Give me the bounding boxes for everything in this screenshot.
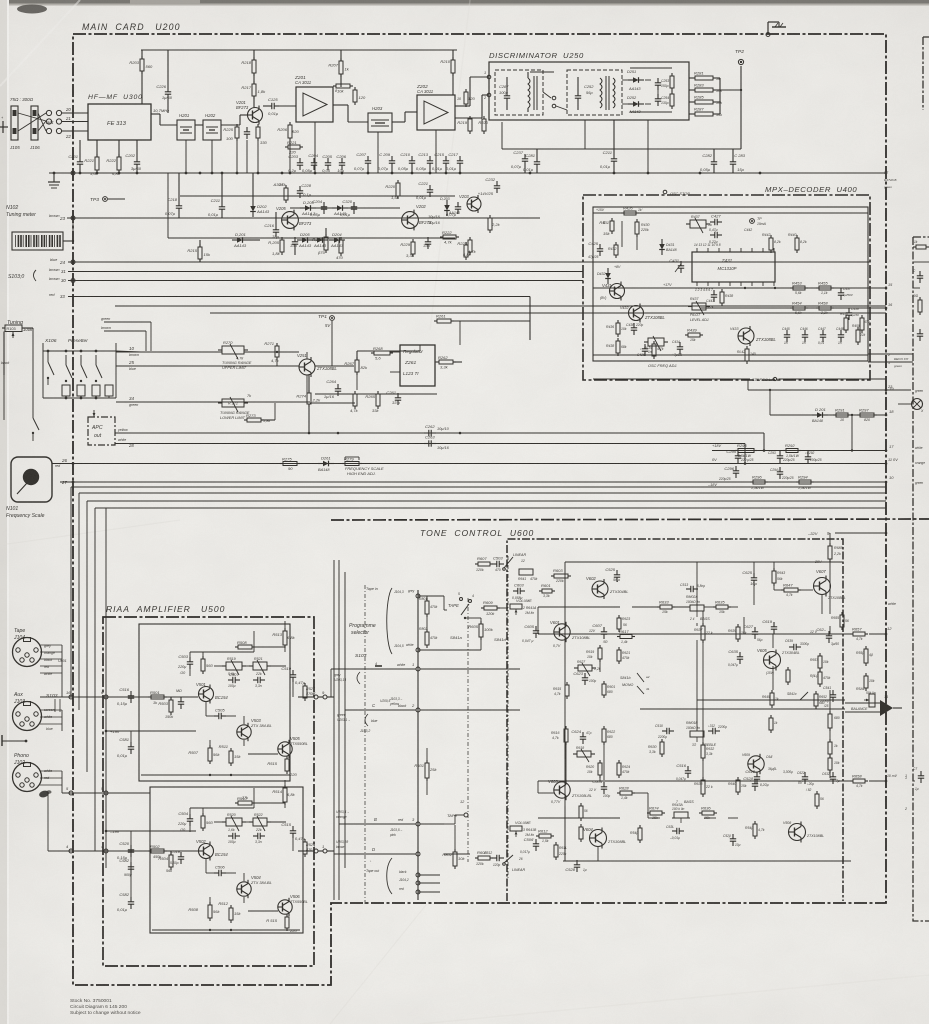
wire Z202 to discriminator pin1 [455,105,470,107]
resistor R297 [857,408,877,418]
selector bus B [338,560,340,900]
tone wires lower [537,781,539,793]
capacitor C296 [724,466,739,478]
capacitor C232 [478,177,500,196]
resistor R218 [241,57,256,76]
capacitor C609l [730,834,736,846]
resistor R614 [554,842,558,860]
resistor R436 [616,320,620,337]
discriminator coil core [533,76,535,110]
capacitor C263 [424,435,436,447]
trim R522 [249,816,271,831]
RIAA ch2 bottom rail [152,929,300,931]
diode D205 [297,232,313,248]
capacitor C516 [117,687,134,706]
capacitor C619 [762,619,777,634]
capacitor C223b [446,202,461,217]
capacitor C216 [264,223,279,239]
preset switch 1 [47,351,49,362]
node 5 right [104,791,108,795]
discriminator coil L253 [600,78,602,108]
trim R618 [573,749,595,762]
resistor R430 [635,219,639,237]
resistor R442v [745,346,749,364]
wire [253,50,255,60]
resistor R635 [713,600,731,610]
resistor R274 [296,390,321,407]
capacitor C254 [655,94,661,106]
capacitor C-emitter [244,127,250,139]
trim R437 [686,218,710,233]
resistor R432 [614,242,618,258]
wire y851 phono [48,850,198,852]
capacitor C519 [281,666,305,685]
wire [340,50,342,61]
antenna connector J106 [31,106,38,140]
resistor R644 [753,821,757,839]
MPX rail y308 [700,307,886,309]
capacitor C443 [711,290,717,302]
resistor R210 [440,57,455,76]
tone wires upper2 [745,633,853,635]
resistor R602sel [442,849,465,869]
discriminator transformer can 1 [495,70,543,115]
trim R437 osc [644,336,668,351]
diode D204 [329,232,345,248]
wire 34 rail ext [310,402,355,404]
diode D201m [232,232,248,248]
capacitor C203 [288,154,303,173]
resistor R601sel [414,760,437,781]
discriminator input cap [504,91,510,103]
wire [244,402,247,404]
bus y493 [79,492,886,494]
resistor R652l [815,791,819,809]
resistor R655 [840,612,844,630]
preset switch 4 [95,355,97,365]
IF module FE313 U300 [88,104,151,140]
tape connector wires [40,644,67,697]
transistor V607 [814,569,831,597]
ink blob [38,790,49,799]
capacitor C515 [281,822,305,841]
capacitor C582 [117,892,134,912]
capacitor C320m [340,199,357,217]
resistor R640 [736,777,740,795]
wire Z202 to discriminator pin2 [455,117,482,119]
resistor R802 [425,629,429,648]
discriminator pin 1 [487,75,491,79]
capacitor C204 [302,153,319,173]
resistor R220 [385,180,400,200]
diode D205r [300,200,316,216]
capacitor C207 [354,152,371,171]
resistor R224 [488,215,501,233]
resistor R285 [692,95,716,105]
node 4 right [104,849,108,853]
capacitor C516t [676,763,691,778]
capacitor C445 [784,330,790,342]
tone inner top rail [565,561,843,563]
resistor R225v [312,234,328,255]
capacitor C237 [511,150,528,169]
resistor R636 [699,806,717,816]
diode D261 [318,456,334,467]
resistor R220b [478,116,488,134]
wire H203 to Z202 [392,121,405,123]
capacitor C501 [178,697,184,709]
resistor R611l [579,824,583,842]
resistor R251d [670,73,674,91]
resistor R504 [158,852,173,870]
trim R272 [218,397,248,412]
resistor R515 [267,756,297,777]
capacitor C215 [432,152,449,171]
RIAA ch1 bottom rail [141,774,290,776]
bus y306 [115,305,886,307]
resistor R660 [828,755,832,773]
resistor R217v [336,237,344,260]
transistor V604 [583,827,607,849]
diode D251 [628,77,644,83]
tone input wires [443,596,445,610]
diode D201 [812,407,828,418]
capacitor C431 [669,258,684,273]
right-edge card border [913,37,929,921]
wire y697 tape [40,696,62,698]
resistor R221s [285,140,303,155]
wire antenna to FE313 pin21 [62,121,88,123]
resistor R279 [342,456,362,465]
capacitor C304m [310,199,327,217]
capacitor C628 [743,776,758,791]
resistor R505 [201,656,214,674]
capacitor C606l [524,837,540,851]
capacitor C221 [416,181,433,200]
bus y313 [210,312,886,314]
switch LINEAR 1 [504,557,513,568]
output junction [880,700,893,716]
resistor R262 [436,355,456,370]
wire [243,897,245,903]
resistor R287 [692,107,716,117]
capacitor C446 [802,330,808,342]
volume gang coupling dash line [507,556,509,880]
resistor R637 [701,623,705,643]
tone mid rail upper [538,633,853,635]
capacitor C283 [730,153,746,172]
tone wire out pair [697,699,845,701]
resistor R292 [783,443,801,453]
capacitor C635 [728,649,743,664]
wire stereo to lamp [748,389,911,391]
capacitor C434 [677,342,683,354]
tone mid rail lower [538,780,853,782]
capacitor C292b [805,452,811,464]
resistor R502 [148,844,167,853]
resistor R501 [148,690,167,699]
resistor R252d [670,91,674,109]
node 6 left [69,695,73,699]
tone control U600 border top [331,519,929,520]
phono connector wires [40,769,62,793]
discriminator coil L254 [613,78,615,108]
MPX top rail [593,212,868,214]
wire [630,67,672,69]
resistor R293 [735,443,757,453]
wire [22,327,33,329]
RIAA ch1 out nodes [314,695,318,699]
wire [243,740,245,746]
capacitor C217 [446,152,463,171]
discriminator transformer can 2 [567,70,622,115]
resistor R650 [864,646,868,666]
pot upper linear [519,569,533,575]
resistor R438 [720,289,724,306]
transistor V609 [748,754,764,774]
resistor R527 [303,683,307,701]
resistor R634 [647,806,665,816]
wire [214,821,226,823]
resistor R265 [365,391,380,413]
selector arrow C [365,714,368,726]
capacitor C226 [156,84,172,100]
wire [689,77,692,79]
selector node A [327,696,331,698]
resistor R438L [616,338,620,356]
capacitor C447 [820,330,826,342]
capacitor C201 [68,154,83,169]
resistor R512 [218,901,241,923]
selector bus C [344,572,346,868]
tone lower input [444,823,455,825]
bus x106 down [105,508,107,868]
transistor V504 [237,875,262,898]
bus y487 [71,486,886,488]
resistor R273 [244,413,264,422]
capacitor C627 [743,624,758,639]
wire y793 [62,792,150,794]
capacitor C525 [605,567,620,582]
resistor R513 [272,628,295,648]
MPX decoder U400 border [583,195,870,380]
tone inner bottom rail [563,860,851,862]
resistor R620 [598,760,602,778]
capacitor C218a [165,197,182,216]
trim R519 [222,660,246,675]
capacitor C506 [214,865,226,877]
wire [357,350,420,352]
resistor R554 [769,715,773,733]
APC out box [88,417,115,445]
wire [65,396,67,398]
resistor R271 [264,341,279,363]
ceramic filter H201 [177,120,195,140]
capacitor C428 [710,232,722,238]
transistor V605 [757,648,781,671]
resistor R439 [685,328,703,338]
capacitor C528 [565,860,580,872]
stereo lamp [912,399,923,410]
resistor R268 [371,346,393,361]
resistor R651 [818,653,822,671]
resistor R643 [772,568,776,586]
diode D206 [312,237,328,248]
opamp Z202 CA3011 [417,95,455,130]
capacitor C281 [523,153,540,172]
chassis bar [1,735,3,746]
wire y352 tuning rail [141,351,222,353]
resistor R552 [864,673,868,691]
discriminator coil L251 [528,78,530,108]
capacitor C437 [838,288,844,300]
tone wire x565 low [564,806,566,861]
resistor R204 [256,124,268,145]
capacitor C294 [777,467,783,479]
wire antenna to FE313 pin22 [62,130,88,132]
aux connector wires [40,708,62,731]
wire [214,665,226,667]
chassis ground [53,173,55,182]
power entry symbol top [768,22,786,34]
resistor R281 [692,71,716,81]
resistor R440 [795,235,799,253]
resistor R267 [344,357,368,375]
RIAA ch2 out nodes [314,849,318,853]
resistor R621 [617,647,621,664]
capacitor C508 [228,833,240,839]
presetter bottom rail [43,397,116,399]
resistor R524 [303,839,307,857]
capacitor C504 [178,811,193,826]
resistor R431 [599,218,614,236]
capacitor C202 [125,153,141,171]
capacitor C205 [322,154,333,173]
capacitor C505 [214,708,226,720]
wire [189,652,191,657]
capacitor C206 [336,154,346,173]
resistor R-680 [602,681,606,698]
transistor V204 [402,204,432,230]
selector wafer coupling dash [364,585,366,905]
discriminator coil core 2 [605,76,607,110]
capacitor C605 [524,624,539,638]
transistor V201 [236,100,263,125]
capacitor C509 [253,677,265,683]
capacitor C520 [117,841,134,860]
transistor V502 [196,839,228,861]
wire y149 discriminator out [502,148,741,150]
capacitor C125 [267,97,279,116]
wire [253,96,255,107]
resistor R639 [736,624,740,642]
transistor V432 [629,304,666,323]
antenna connector J105 [11,106,18,140]
transistor V501 [196,682,228,704]
capacitor C440 [846,308,852,320]
resistor R619 [598,645,602,662]
capacitor C262 [424,424,436,436]
RIAA amplifier U500 border [103,617,314,966]
wire D201 row [770,414,886,416]
resistor R209 [333,84,353,94]
capacitor C604l [592,779,607,794]
rail 0V [885,462,888,465]
resistor R453 [790,281,808,291]
resistor R213 [464,89,476,107]
test point TP4 [750,219,755,224]
main horizontal bus y173 [49,172,886,174]
wire [603,221,605,224]
antenna coupling circles [46,110,61,133]
wire 25 blue rail [116,365,299,367]
capacitor C603 [513,583,525,595]
capacitor C632 [830,772,836,784]
capacitor C582b [119,858,134,874]
resistor R508 [188,902,220,921]
preset switch extra [32,410,34,418]
capacitor C209 [378,152,395,171]
selector bus A [333,560,335,900]
resistor R203 [129,56,153,74]
discriminator pin 2 [487,93,491,97]
border node circles [71,171,75,175]
right box parts [912,240,929,341]
frequency scale box N101 [11,457,52,502]
capacitor C210 [398,152,415,171]
diode D431 [659,239,665,255]
resistor R205 [268,237,284,256]
presetter box [42,343,44,398]
trim R270 [218,344,248,359]
voltage regulator Z261 [400,345,435,386]
wire [390,351,400,353]
resistor R458 [860,315,864,333]
DIN connector Aux J103 [13,692,42,731]
resistor R454 [790,301,808,311]
selector node B [339,823,416,825]
wire antenna to FE313 pin20 [62,112,88,114]
resistor R455 [816,281,834,291]
resistor R294 [796,475,814,485]
capacitor C511t [708,728,720,734]
resistor R456 [844,315,848,333]
tone wires upper [632,606,660,608]
resistor R638 [701,777,705,797]
capacitor C293 [777,451,783,463]
resistor R283 [692,83,716,93]
wire [221,124,240,126]
wire FE313 out [151,113,160,115]
resistor R685 [828,543,832,562]
resistor R503 [158,697,173,715]
resistor R225 [223,124,239,141]
opamp Z201 CA3011 [296,87,333,122]
transistor V505 [278,736,301,758]
tuning meter barcode [12,232,63,250]
capacitor C581 [117,737,134,758]
transistor V503 [237,718,262,741]
capacitor C625 [742,570,757,586]
wire [868,287,886,289]
capacitor C622l [802,772,808,784]
resistor R261 [434,314,454,324]
tone inner left vert [564,562,566,861]
resistor R623 [617,615,621,632]
DIN connector Phono J102 [13,753,42,792]
diode D432 [605,268,611,284]
preset switch 2 [65,355,67,365]
